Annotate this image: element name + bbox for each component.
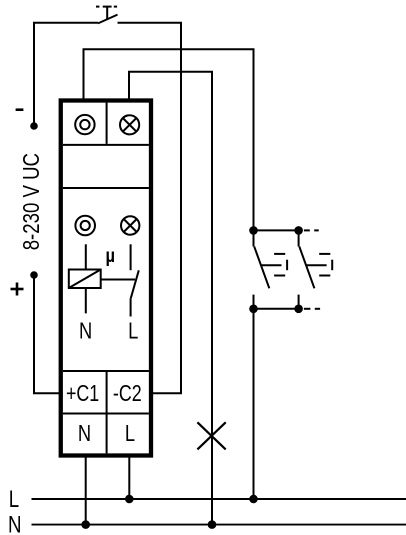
svg-text:N: N: [8, 511, 22, 535]
svg-text:N: N: [79, 319, 92, 345]
svg-text:8-230 V UC: 8-230 V UC: [19, 153, 44, 250]
svg-text:N: N: [78, 421, 91, 447]
svg-text:L: L: [128, 319, 138, 345]
svg-text:-C2: -C2: [113, 381, 142, 407]
svg-text:L: L: [9, 486, 19, 513]
svg-text:L: L: [125, 421, 135, 447]
svg-text:+C1: +C1: [66, 381, 99, 407]
svg-text:µ: µ: [105, 245, 115, 266]
